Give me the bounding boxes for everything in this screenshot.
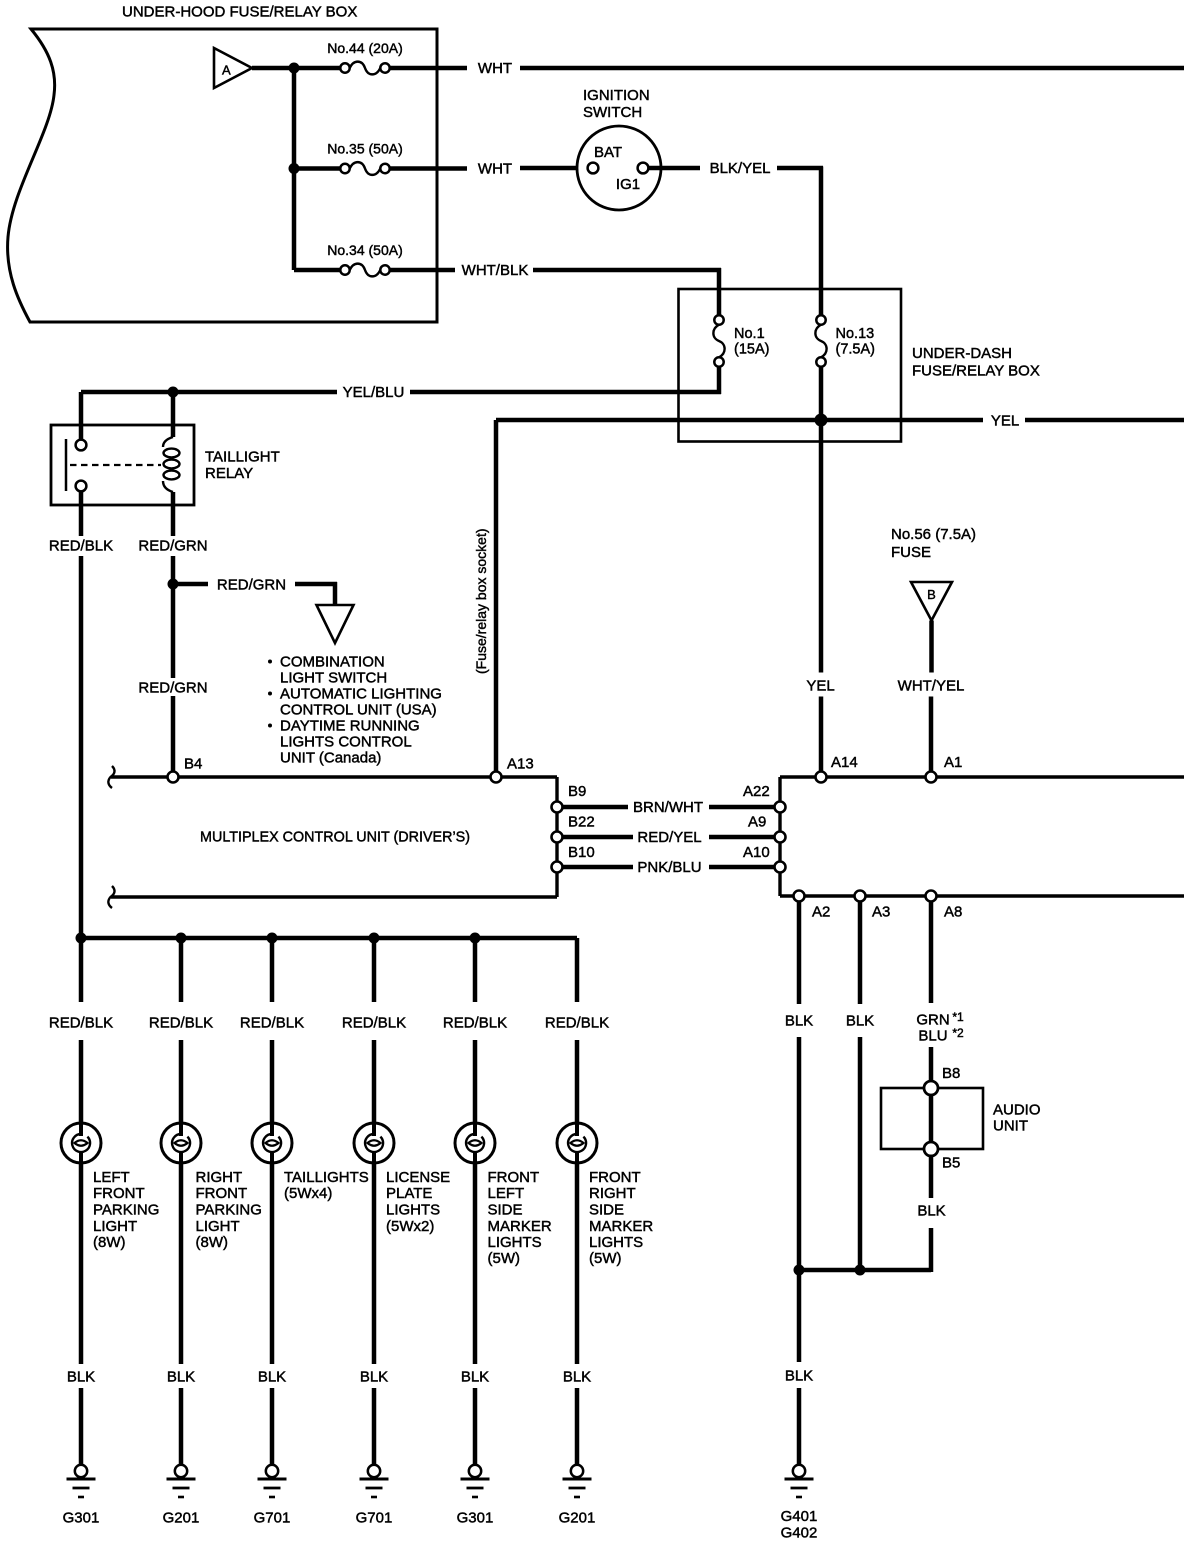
svg-text:RIGHT: RIGHT [589, 1185, 636, 1202]
svg-text:B9: B9 [568, 783, 586, 800]
svg-text:PNK/BLU: PNK/BLU [637, 859, 701, 876]
svg-text:YEL: YEL [806, 678, 834, 695]
svg-text:A22: A22 [743, 783, 770, 800]
svg-text:BLK: BLK [258, 1369, 286, 1386]
svg-text:FRONT: FRONT [93, 1185, 145, 1202]
svg-text:A2: A2 [812, 904, 830, 921]
svg-text:LIGHTS: LIGHTS [386, 1202, 440, 1219]
svg-text:RED/GRN: RED/GRN [217, 577, 286, 594]
svg-text:A8: A8 [944, 904, 962, 921]
svg-text:SIDE: SIDE [589, 1202, 624, 1219]
svg-text:RED/BLK: RED/BLK [149, 1015, 213, 1032]
svg-text:RED/BLK: RED/BLK [342, 1015, 406, 1032]
svg-text:FUSE/RELAY BOX: FUSE/RELAY BOX [912, 363, 1040, 380]
svg-text:BAT: BAT [594, 144, 622, 161]
svg-text:RELAY: RELAY [205, 465, 253, 482]
svg-text:IG1: IG1 [616, 176, 640, 193]
svg-text:A10: A10 [743, 844, 770, 861]
svg-text:PARKING: PARKING [196, 1202, 262, 1219]
svg-text:LEFT: LEFT [93, 1169, 130, 1186]
svg-text:PLATE: PLATE [386, 1185, 432, 1202]
svg-text:AUDIO: AUDIO [993, 1102, 1041, 1119]
svg-text:BLK: BLK [360, 1369, 388, 1386]
svg-text:A14: A14 [831, 754, 858, 771]
svg-text:G701: G701 [254, 1510, 291, 1527]
svg-text:SIDE: SIDE [488, 1202, 523, 1219]
svg-text:RED/GRN: RED/GRN [138, 538, 207, 555]
svg-text:SWITCH: SWITCH [583, 104, 642, 121]
svg-text:RIGHT: RIGHT [196, 1169, 243, 1186]
svg-text:No.1: No.1 [734, 326, 765, 342]
svg-text:LICENSE: LICENSE [386, 1169, 450, 1186]
svg-text:(8W): (8W) [196, 1234, 229, 1251]
svg-text:(5Wx2): (5Wx2) [386, 1218, 434, 1235]
svg-text:CONTROL UNIT (USA): CONTROL UNIT (USA) [280, 702, 437, 719]
svg-text:RED/GRN: RED/GRN [138, 680, 207, 697]
svg-text:G201: G201 [163, 1510, 200, 1527]
svg-text:No.44 (20A): No.44 (20A) [327, 40, 402, 56]
svg-text:LIGHT SWITCH: LIGHT SWITCH [280, 670, 387, 687]
svg-text:RED/BLK: RED/BLK [49, 538, 113, 555]
svg-text:WHT/BLK: WHT/BLK [462, 262, 529, 279]
svg-text:*2: *2 [952, 1026, 964, 1040]
svg-text:IGNITION: IGNITION [583, 87, 650, 104]
svg-text:UNIT: UNIT [993, 1118, 1028, 1135]
svg-text:FRONT: FRONT [488, 1169, 540, 1186]
svg-text:BLK/YEL: BLK/YEL [710, 160, 771, 177]
svg-text:No.56 (7.5A): No.56 (7.5A) [891, 526, 976, 543]
svg-text:(8W): (8W) [93, 1234, 126, 1251]
svg-text:UNIT (Canada): UNIT (Canada) [280, 750, 381, 767]
svg-text:RED/BLK: RED/BLK [443, 1015, 507, 1032]
svg-text:BLK: BLK [917, 1203, 945, 1220]
svg-text:No.35 (50A): No.35 (50A) [327, 141, 402, 157]
svg-text:(5Wx4): (5Wx4) [284, 1185, 332, 1202]
svg-text:RED/BLK: RED/BLK [545, 1015, 609, 1032]
svg-text:RED/BLK: RED/BLK [240, 1015, 304, 1032]
svg-text:A: A [222, 63, 231, 78]
svg-text:BRN/WHT: BRN/WHT [633, 799, 703, 816]
svg-text:WHT/YEL: WHT/YEL [898, 678, 965, 695]
svg-text:COMBINATION: COMBINATION [280, 654, 385, 671]
svg-text:MULTIPLEX CONTROL UNIT (DRIVER: MULTIPLEX CONTROL UNIT (DRIVER’S) [200, 829, 470, 846]
svg-text:B10: B10 [568, 844, 595, 861]
svg-text:(7.5A): (7.5A) [836, 342, 876, 358]
svg-text:(Fuse/relay box socket): (Fuse/relay box socket) [473, 529, 489, 675]
svg-text:A13: A13 [507, 756, 534, 773]
svg-text:BLK: BLK [785, 1368, 813, 1385]
svg-text:TAILLIGHT: TAILLIGHT [205, 449, 280, 466]
svg-text:YEL: YEL [991, 413, 1019, 430]
svg-text:B: B [927, 587, 936, 602]
svg-text:YEL/BLU: YEL/BLU [343, 384, 405, 401]
svg-text:B8: B8 [942, 1065, 960, 1082]
svg-text:UNDER-HOOD FUSE/RELAY BOX: UNDER-HOOD FUSE/RELAY BOX [122, 4, 357, 21]
svg-text:BLK: BLK [846, 1013, 874, 1030]
svg-text:A3: A3 [872, 904, 890, 921]
svg-text:BLK: BLK [563, 1369, 591, 1386]
svg-text:LEFT: LEFT [488, 1185, 525, 1202]
svg-text:FRONT: FRONT [589, 1169, 641, 1186]
svg-text:MARKER: MARKER [488, 1218, 552, 1235]
svg-text:PARKING: PARKING [93, 1202, 159, 1219]
svg-text:G301: G301 [457, 1510, 494, 1527]
svg-text:DAYTIME RUNNING: DAYTIME RUNNING [280, 718, 420, 735]
svg-text:G301: G301 [63, 1510, 100, 1527]
svg-text:*1: *1 [952, 1010, 964, 1024]
svg-text:BLU: BLU [918, 1028, 947, 1045]
svg-text:G401: G401 [781, 1508, 818, 1525]
svg-text:GRN: GRN [916, 1012, 949, 1029]
svg-text:RED/YEL: RED/YEL [637, 829, 701, 846]
svg-text:LIGHTS: LIGHTS [589, 1234, 643, 1251]
svg-text:No.13: No.13 [836, 326, 875, 342]
svg-text:B22: B22 [568, 814, 595, 831]
svg-text:LIGHT: LIGHT [196, 1218, 240, 1235]
svg-text:FRONT: FRONT [196, 1185, 248, 1202]
svg-text:UNDER-DASH: UNDER-DASH [912, 345, 1012, 362]
svg-text:No.34 (50A): No.34 (50A) [327, 242, 402, 258]
svg-text:(5W): (5W) [589, 1250, 622, 1267]
svg-text:LIGHTS CONTROL: LIGHTS CONTROL [280, 734, 412, 751]
svg-text:AUTOMATIC LIGHTING: AUTOMATIC LIGHTING [280, 686, 442, 703]
svg-text:LIGHT: LIGHT [93, 1218, 137, 1235]
svg-text:BLK: BLK [167, 1369, 195, 1386]
svg-text:G701: G701 [356, 1510, 393, 1527]
svg-text:WHT: WHT [478, 60, 512, 77]
svg-text:B4: B4 [184, 756, 202, 773]
svg-text:RED/BLK: RED/BLK [49, 1015, 113, 1032]
svg-text:BLK: BLK [461, 1369, 489, 1386]
svg-text:WHT: WHT [478, 161, 512, 178]
svg-text:BLK: BLK [785, 1013, 813, 1030]
svg-text:B5: B5 [942, 1155, 960, 1172]
svg-text:BLK: BLK [67, 1369, 95, 1386]
svg-text:TAILLIGHTS: TAILLIGHTS [284, 1169, 369, 1186]
svg-text:MARKER: MARKER [589, 1218, 653, 1235]
svg-text:A1: A1 [944, 754, 962, 771]
svg-text:FUSE: FUSE [891, 544, 931, 561]
svg-text:G402: G402 [781, 1525, 818, 1542]
svg-text:G201: G201 [559, 1510, 596, 1527]
svg-text:LIGHTS: LIGHTS [488, 1234, 542, 1251]
svg-text:A9: A9 [748, 814, 766, 831]
svg-text:(5W): (5W) [488, 1250, 521, 1267]
svg-text:(15A): (15A) [734, 342, 769, 358]
